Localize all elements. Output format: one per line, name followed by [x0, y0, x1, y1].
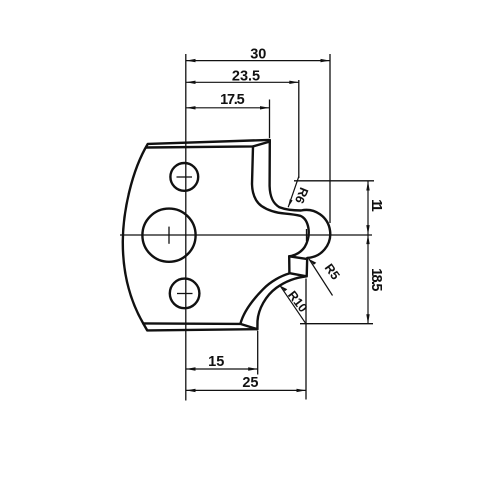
svg-text:15: 15	[208, 354, 224, 370]
svg-text:17.5: 17.5	[220, 92, 245, 108]
svg-text:18.5: 18.5	[368, 268, 384, 291]
svg-text:23.5: 23.5	[232, 68, 260, 84]
svg-text:25: 25	[242, 375, 258, 391]
svg-text:30: 30	[250, 47, 266, 63]
